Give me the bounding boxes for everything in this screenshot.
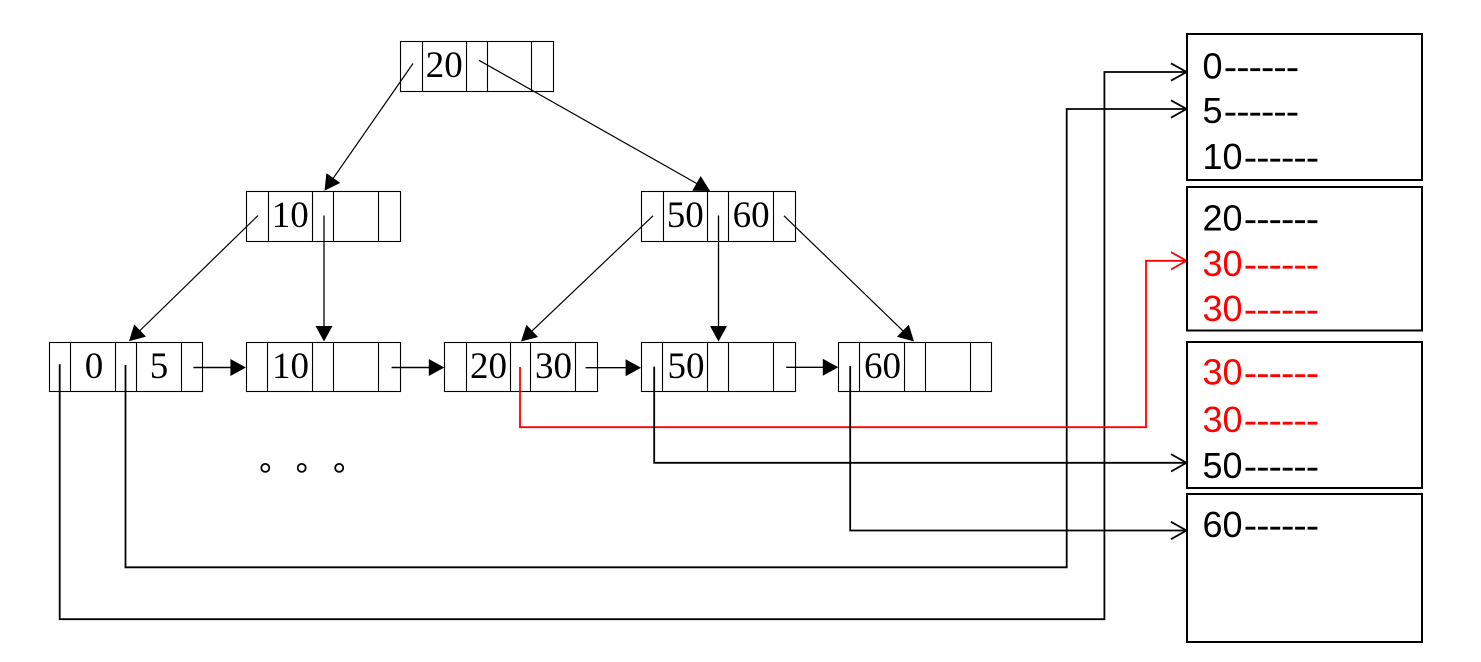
svg-text:30: 30 <box>1203 288 1243 329</box>
root node [ |20| | | ] <box>401 42 554 92</box>
svg-text:50: 50 <box>667 195 704 236</box>
record pointer leaf 30 to block 2 row 30 (red) <box>520 261 1187 427</box>
svg-text:60: 60 <box>733 195 770 236</box>
svg-text:10: 10 <box>272 195 309 236</box>
svg-text:30: 30 <box>1203 399 1243 440</box>
arrow node 50/60 to leaf 20/30 <box>531 216 653 332</box>
leaf node 0/5 box <box>50 343 203 392</box>
internal node 50/60 box <box>642 192 796 242</box>
svg-text:0: 0 <box>1203 46 1223 87</box>
arrow node 50/60 to leaf 60 <box>784 216 904 332</box>
arrow root to node 10 <box>333 64 414 180</box>
record pointer leaf 50 to block 3 row 50 <box>654 367 1186 463</box>
svg-text:10: 10 <box>1203 136 1243 177</box>
data block 1 <box>1187 34 1422 180</box>
svg-text:20: 20 <box>1203 198 1243 239</box>
svg-text:0: 0 <box>85 346 104 387</box>
internal node 10 box <box>247 192 401 242</box>
record pointer leaf 60 to block 4 row 60 <box>850 366 1186 531</box>
data block 2 <box>1187 187 1422 331</box>
svg-text:30: 30 <box>1203 243 1243 284</box>
leaf chain arrow 0/5 to 10 <box>193 367 232 369</box>
leaf chain arrow 20/30 to 50 <box>586 367 628 369</box>
arrow node 50/60 to leaf 50 <box>718 216 720 328</box>
svg-text:20: 20 <box>470 346 507 387</box>
leaf node 20/30 box <box>445 343 598 392</box>
svg-text:60: 60 <box>864 346 901 387</box>
leaf chain arrow 50 to 60 <box>786 366 824 368</box>
svg-text:60: 60 <box>1203 504 1243 545</box>
svg-text:50: 50 <box>668 346 705 387</box>
data block 3 <box>1187 342 1422 488</box>
svg-text:30: 30 <box>1203 352 1243 393</box>
svg-text:20: 20 <box>426 45 463 86</box>
record pointer leaf 0 to block 1 row 0 <box>60 72 1187 619</box>
arrow root to node 50/60 <box>479 60 698 184</box>
svg-text:10: 10 <box>272 346 309 387</box>
svg-text:50: 50 <box>1203 445 1243 486</box>
svg-text:30: 30 <box>535 346 572 387</box>
svg-text:5: 5 <box>1203 90 1223 131</box>
svg-text:5: 5 <box>150 346 169 387</box>
ellipsis circle 1 <box>261 464 269 472</box>
data block 4 <box>1187 494 1422 642</box>
ellipsis circle 2 <box>298 464 306 472</box>
leaf node 10 box <box>247 343 401 392</box>
leaf chain arrow 10 to 20/30 <box>392 367 431 369</box>
leaf node 60 box <box>839 343 992 392</box>
arrow node 10 to leaf 10 <box>323 216 325 328</box>
leaf node 50 box <box>642 343 796 392</box>
record pointer leaf 5 to block 1 row 5 <box>126 109 1187 567</box>
arrow node 10 to leaf 0/5 <box>139 216 258 332</box>
ellipsis circle 3 <box>335 464 343 472</box>
